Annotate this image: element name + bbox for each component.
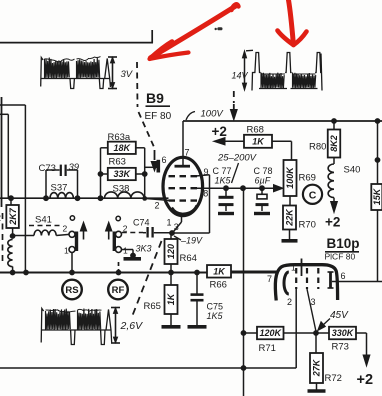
svg-text:6: 6 (162, 155, 167, 165)
svg-text:S40: S40 (344, 165, 361, 176)
svg-text:R65: R65 (144, 301, 161, 312)
svg-text:C75: C75 (207, 302, 224, 312)
svg-text:22K: 22K (285, 208, 295, 227)
svg-text:120K: 120K (259, 328, 282, 338)
svg-text:27K: 27K (312, 358, 322, 377)
svg-text:B10p: B10p (327, 236, 360, 251)
svg-text:8K2: 8K2 (329, 135, 339, 152)
svg-text:R71: R71 (259, 343, 276, 354)
svg-text:C 77: C 77 (213, 166, 232, 176)
svg-text:B9: B9 (146, 90, 164, 106)
svg-text:1K: 1K (213, 267, 226, 277)
svg-text:7: 7 (185, 148, 190, 158)
svg-text:R73: R73 (332, 342, 349, 353)
svg-text:1K5: 1K5 (215, 176, 232, 186)
svg-text:6µF: 6µF (255, 176, 271, 186)
svg-text:C 78: C 78 (254, 166, 273, 176)
svg-text:S37: S37 (51, 183, 68, 194)
svg-text:PlCF 80: PlCF 80 (325, 252, 356, 262)
svg-text:3V: 3V (121, 69, 134, 80)
svg-text:1: 1 (167, 218, 172, 228)
svg-text:8: 8 (203, 189, 208, 199)
svg-text:R63: R63 (109, 157, 126, 168)
svg-text:R70: R70 (299, 220, 316, 231)
svg-text:1K5: 1K5 (207, 311, 224, 321)
svg-text:1K: 1K (166, 292, 176, 305)
svg-text:R64: R64 (180, 253, 197, 264)
svg-text:R63a: R63a (108, 132, 131, 143)
svg-text:R68: R68 (247, 125, 264, 136)
svg-text:R66: R66 (210, 280, 227, 291)
svg-text:120: 120 (166, 244, 176, 259)
svg-text:EF 80: EF 80 (145, 111, 172, 122)
svg-text:330K: 330K (332, 328, 355, 338)
svg-text:1K: 1K (252, 137, 265, 147)
svg-text:2,6V: 2,6V (120, 320, 144, 332)
svg-text:18K: 18K (114, 143, 132, 153)
svg-text:3: 3 (311, 297, 316, 307)
svg-text:S41: S41 (35, 215, 52, 226)
svg-text:100V: 100V (201, 109, 225, 120)
svg-text:2: 2 (155, 201, 160, 211)
svg-text:R72: R72 (325, 373, 342, 384)
svg-text:+2: +2 (325, 215, 340, 230)
svg-text:2K7: 2K7 (8, 207, 18, 226)
svg-text:R80: R80 (309, 142, 326, 153)
svg-text:14V: 14V (232, 71, 249, 81)
svg-text:1: 1 (291, 263, 296, 273)
svg-text:RS: RS (65, 285, 78, 296)
svg-text:1: 1 (64, 246, 69, 256)
svg-text:2: 2 (0, 213, 1, 223)
svg-text:25–200V: 25–200V (217, 153, 258, 164)
svg-text:+2: +2 (212, 124, 227, 139)
svg-text:39: 39 (69, 162, 80, 173)
svg-text:9: 9 (204, 167, 209, 177)
svg-text:2: 2 (63, 224, 68, 234)
svg-text:100K: 100K (285, 166, 295, 189)
svg-text:–19V: –19V (180, 236, 203, 246)
svg-text:RF: RF (112, 285, 125, 296)
svg-text:2: 2 (287, 297, 292, 307)
svg-text:15K: 15K (372, 187, 382, 205)
svg-text:7: 7 (267, 274, 272, 284)
svg-text:S38: S38 (113, 184, 130, 195)
svg-text:3: 3 (174, 222, 179, 232)
svg-text:1: 1 (123, 246, 128, 256)
svg-text:+2: +2 (357, 372, 374, 388)
svg-text:45V: 45V (330, 310, 349, 321)
svg-text:C: C (309, 189, 317, 201)
svg-text:6: 6 (341, 271, 346, 281)
svg-text:3K3: 3K3 (136, 244, 152, 254)
svg-text:33K: 33K (114, 169, 132, 179)
svg-text:C73: C73 (39, 163, 56, 174)
svg-text:C74: C74 (133, 218, 150, 228)
svg-text:R69: R69 (299, 173, 316, 184)
